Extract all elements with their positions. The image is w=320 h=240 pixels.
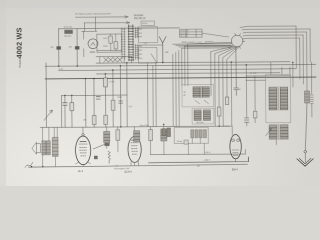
transformer T1 secondary winding upper — [135, 27, 139, 38]
band switch rotor circle — [231, 35, 243, 47]
nested loop wires right — [240, 26, 310, 91]
junction dots top buses — [30, 61, 294, 168]
wire drop x127 — [126, 63, 128, 127]
tube V2 ECH4 envelope — [128, 136, 141, 162]
tube V3 magic eye envelope — [230, 134, 242, 158]
svg-text:+235 V: +235 V — [204, 152, 211, 154]
svg-text:+260 V: +260 V — [203, 160, 210, 162]
selector mid wire — [139, 44, 163, 46]
wire antenna drop x59 — [58, 29, 60, 66]
wire x255 drop — [254, 76, 256, 123]
resistor R3 in psu box — [109, 36, 112, 43]
rectifier tube AZ11 circle — [88, 39, 98, 49]
wire mains leads down — [148, 63, 157, 127]
svg-text:Netztrafo: Netztrafo — [134, 14, 144, 17]
capacitor on x120.6 — [119, 101, 123, 103]
capacitor on x98 — [96, 97, 100, 99]
svg-text:Vor Netzanschluss Spannung pru: Vor Netzanschluss Spannung prufen! — [75, 12, 112, 15]
wire bus y126.5 — [40, 126, 231, 127]
svg-text:0 Ω: 0 Ω — [144, 43, 148, 45]
V1 electrodes — [79, 144, 87, 156]
resistor R7 on x105.5 lower — [104, 115, 108, 124]
wire drop x105.5 — [104, 74, 106, 127]
V1 anode bar — [80, 141, 86, 143]
capacitor plates x64.9 — [63, 103, 67, 105]
power section box — [82, 31, 122, 52]
dial cord arrow line 1 — [75, 16, 128, 19]
resistor R1 on antenna drop — [56, 46, 60, 49]
resistor R2 — [75, 46, 79, 49]
wire bus y73.5 — [96, 73, 279, 74]
wire link arrows to box — [84, 17, 95, 31]
IF transformer block 1 outline — [182, 84, 214, 107]
small blob component — [105, 143, 110, 146]
transformer T1 secondary winding lower — [135, 44, 139, 60]
right IF core 1 — [278, 87, 279, 111]
speaker wires up — [43, 127, 58, 141]
resistor x255 — [253, 111, 257, 118]
IF2 coil b — [203, 110, 210, 121]
dial cord arrow line 2 — [84, 22, 130, 25]
wire resistor drop x71.8 — [71, 95, 73, 127]
mains selector plate upper — [138, 27, 157, 43]
transformer T1 core laminations — [128, 25, 134, 61]
resistor R10 drop — [149, 130, 153, 141]
tone box outline — [174, 127, 208, 143]
chassis squiggle at line start — [25, 162, 33, 167]
wire bus y56 band top — [96, 55, 131, 57]
svg-text:AZ11: AZ11 — [90, 51, 96, 54]
wire bus y62.6 — [96, 62, 289, 63]
wire V2 top — [133, 127, 135, 136]
output transformer coil b — [47, 141, 51, 155]
voltage selector label box — [141, 21, 155, 25]
svg-text:Klang: Klang — [177, 141, 182, 143]
output IF core 2 — [278, 124, 279, 140]
svg-text:6M: 6M — [165, 52, 168, 54]
field coil choke — [52, 137, 58, 156]
grid choke block a — [104, 131, 110, 143]
wire choke c — [163, 124, 165, 154]
wire bus y165.7 ground return — [29, 164, 248, 167]
resistor R8 on x113 — [111, 100, 115, 110]
wire R9 — [117, 127, 119, 152]
wire bus y162.4 anode supply — [148, 157, 248, 163]
output IF coil 2b — [280, 125, 288, 139]
band switch fan wires left — [173, 42, 233, 126]
V3 electrodes — [232, 150, 239, 156]
wire drop x120.6 — [119, 66, 121, 127]
svg-text:2M: 2M — [69, 46, 72, 48]
right IF coil 1b — [280, 87, 288, 110]
grid choke block b — [134, 131, 140, 142]
wire drop x94 — [93, 79, 95, 127]
wire R10 — [150, 127, 152, 155]
wire V1 top — [82, 127, 84, 136]
svg-text:Blaupunkt: Blaupunkt — [19, 57, 22, 68]
svg-text:ZF 468: ZF 468 — [250, 73, 257, 75]
capacitor x246 — [244, 118, 248, 122]
paper background — [0, 0, 320, 186]
svg-text:5%: 5% — [197, 166, 200, 168]
AZ11 filament — [91, 42, 95, 45]
resistor on drop x219 — [217, 107, 221, 116]
svg-text:220V~: 220V~ — [142, 23, 149, 25]
antenna coil L1 blob — [64, 30, 72, 34]
wire box left drop — [83, 31, 85, 56]
wire V2 bottom pins — [131, 162, 139, 166]
wire coil2 drop — [275, 139, 277, 144]
wire cap drop x64.9 — [64, 95, 66, 127]
svg-text:1013 kHz: 1013 kHz — [64, 27, 73, 29]
resistor R6 on x94 — [92, 115, 96, 124]
resistor R5 on x105.5 — [103, 78, 107, 87]
blob component left — [94, 156, 98, 159]
wire x246 drop — [245, 65, 247, 126]
wire IF box risers — [271, 62, 282, 74]
choke coil right x311.5 — [310, 62, 313, 117]
V1 top cap — [82, 133, 84, 135]
output IF trimmer arrow — [266, 129, 272, 136]
component on drop x227 — [225, 97, 228, 105]
right IF can outline — [266, 74, 291, 122]
resistor R9 drop — [116, 130, 120, 141]
band outline ticks — [100, 56, 132, 63]
V2 electrodes — [131, 143, 138, 155]
wire bus y65.5 — [45, 64, 316, 66]
V3 target discs — [232, 139, 235, 142]
resistor body x71.8 — [70, 103, 74, 111]
svg-text:EM 4: EM 4 — [232, 168, 238, 171]
wire terminal to arrow — [304, 153, 306, 162]
wire table to rotor — [202, 33, 229, 37]
wire into tube V3 — [223, 126, 232, 135]
table text rows — [180, 30, 189, 37]
right IF coil 1a — [269, 87, 277, 110]
wire below resistor x219 — [218, 116, 220, 126]
output transformer coil a — [42, 141, 46, 155]
resistor R4 in psu box — [114, 42, 118, 49]
resistor left of box 2 — [167, 128, 171, 137]
resistor hatched right x307 — [305, 91, 310, 103]
potentiometer wiper arrow — [44, 110, 52, 120]
output IF coil 2a — [269, 125, 277, 139]
svg-text:468 kHz: 468 kHz — [196, 122, 203, 124]
wire bus y154.5 — [150, 153, 245, 156]
resistor left of box 1 — [162, 129, 165, 136]
svg-text:Sperrkr.: Sperrkr. — [64, 35, 72, 38]
svg-text:902-251 W: 902-251 W — [134, 18, 146, 20]
wire bus y69.5 — [58, 69, 295, 71]
svg-text:Netz 220V: Netz 220V — [140, 124, 150, 127]
grid choke block c — [161, 129, 167, 141]
IF1 coil b — [202, 87, 209, 98]
tone box hatched resistors — [191, 130, 207, 138]
transformer taps — [138, 29, 142, 58]
svg-text:ECH 4: ECH 4 — [125, 171, 133, 174]
wire V1 bottom — [75, 162, 90, 166]
transformer T1 primary winding — [121, 28, 125, 60]
wire drop x85.6 — [84, 79, 86, 127]
svg-text:6,3V: 6,3V — [59, 69, 64, 71]
capacitor on drop x236 — [234, 47, 239, 96]
right IF top links — [246, 76, 291, 81]
wire choke a — [106, 127, 108, 148]
speaker cone — [32, 142, 41, 154]
earth arrow symbol — [297, 159, 313, 166]
small comp under box — [184, 140, 188, 144]
wire bus y78 heater — [45, 77, 316, 79]
svg-text:1M: 1M — [83, 120, 86, 122]
svg-text:AL 4: AL 4 — [78, 170, 84, 173]
wire drop x77.5 — [76, 29, 78, 66]
terminal circle on ground lead — [304, 150, 307, 153]
zigzag resistor to ground — [108, 151, 110, 163]
IF1 coil a — [193, 87, 200, 98]
fuse diagonal in lower plate — [151, 54, 157, 63]
rotor spokes — [231, 33, 245, 48]
antenna symbol — [159, 37, 166, 63]
svg-text:Ik 1a 6,3: Ik 1a 6,3 — [180, 36, 187, 38]
IF2 coil a — [194, 110, 201, 121]
wire drop x113 — [112, 70, 114, 127]
IF transformer block 2 outline — [192, 108, 214, 124]
svg-text:4002 WS: 4002 WS — [15, 27, 24, 58]
wire psu internal — [111, 34, 116, 51]
svg-text:0,1M: 0,1M — [109, 81, 114, 83]
tube V1 output AL4 envelope — [75, 136, 90, 165]
V2 anode bar — [132, 139, 138, 141]
wire resistor to ground line — [305, 103, 307, 150]
mains selector plate lower — [138, 47, 157, 63]
tone box internal wires — [188, 138, 204, 155]
wire V3 bottom — [236, 149, 249, 161]
IF1 trimmer arrows — [195, 100, 209, 104]
wire bus y94.8 left — [61, 95, 127, 127]
speaker wires down — [43, 155, 56, 167]
measurement table — [180, 29, 203, 37]
band switch lower drops — [211, 46, 241, 126]
diagonal grid wire V1-V2 — [93, 144, 106, 149]
wire left border vertical x46 — [45, 63, 47, 128]
wire antenna bus y28 — [59, 27, 180, 30]
mains switch lamp band X contacts — [104, 57, 122, 62]
IF1 core lines — [201, 86, 202, 98]
svg-text:350V: 350V — [103, 46, 108, 48]
